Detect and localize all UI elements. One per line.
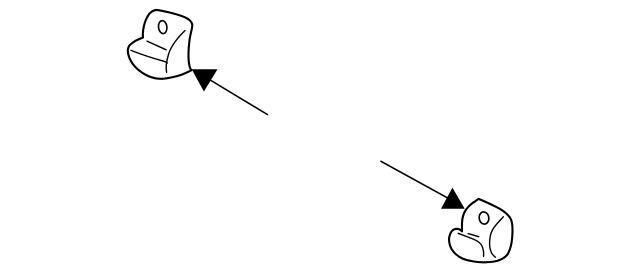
clip 1 mounting hole (oval) — [158, 20, 168, 34]
leader arrow 2 line — [381, 161, 451, 199]
clip 1 crease across middle — [131, 50, 167, 63]
leader arrow 1 head (filled triangle) — [192, 69, 218, 91]
clip part 2 (lower-right retainer) outer outline — [449, 199, 513, 262]
clip 2 crease along flap — [458, 233, 483, 256]
clip 1 crease on top face — [147, 41, 166, 50]
clip 1 right fold crease — [166, 31, 185, 73]
leader arrow 1 line — [209, 79, 268, 115]
clip 2 short crease dash — [468, 234, 479, 237]
clip 2 mounting hole (oval) — [478, 211, 489, 224]
clip 2 right fold crease — [490, 217, 504, 257]
leader arrow 2 head (filled triangle) — [441, 188, 465, 209]
clip part 1 (upper-left retainer) outer outline — [128, 10, 193, 79]
